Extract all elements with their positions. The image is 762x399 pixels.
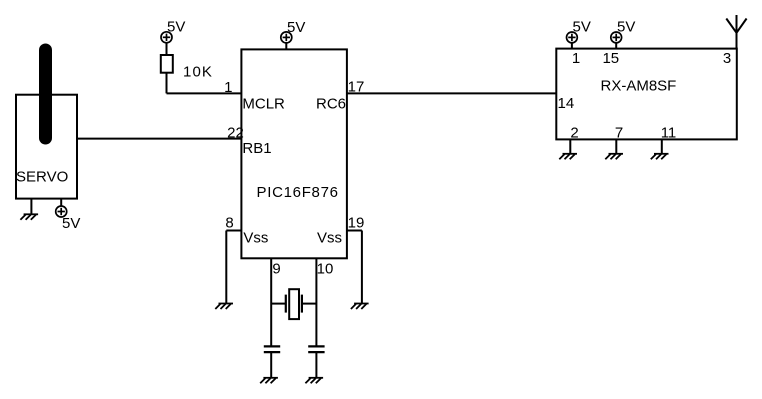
- wire crystal right: [302, 303, 317, 305]
- svg-text:17: 17: [348, 79, 365, 96]
- ground (RX pin 7): [605, 154, 623, 160]
- wire capacitor right to ground: [315, 352, 317, 378]
- wire RX pin 11 to ground: [661, 139, 663, 153]
- ground (servo): [20, 214, 38, 220]
- wire RC6 to RX pin 14: [347, 92, 556, 94]
- capacitor left bottom plate: [264, 351, 280, 353]
- ground (pin 8): [215, 304, 233, 310]
- wire 5V to RX pin 15: [615, 43, 617, 49]
- svg-text:5V: 5V: [617, 19, 635, 36]
- svg-text:Vss: Vss: [317, 229, 342, 246]
- svg-text:7: 7: [615, 124, 623, 141]
- svg-text:5V: 5V: [287, 19, 305, 36]
- 5V supply symbol (RX pin 1): [567, 32, 578, 43]
- wire resistor to MCLR (vertical): [166, 73, 168, 94]
- wire 5V to RX pin 1: [571, 43, 573, 49]
- wire pin 8 horizontal: [226, 230, 241, 232]
- ground (pin 19): [351, 304, 369, 310]
- servo SERVO box: [16, 95, 77, 199]
- wire resistor to MCLR (horizontal): [167, 92, 242, 94]
- svg-text:MCLR: MCLR: [242, 96, 285, 113]
- crystal right plate: [301, 295, 303, 313]
- servo ground lead wire: [30, 199, 32, 215]
- wire 5V to resistor: [166, 43, 168, 55]
- wire capacitor left to ground: [270, 352, 272, 378]
- 5V supply symbol (resistor top): [161, 32, 172, 43]
- 5V supply symbol (RX pin 15): [611, 32, 622, 43]
- svg-text:PIC16F876: PIC16F876: [257, 184, 339, 201]
- svg-text:9: 9: [272, 260, 280, 277]
- resistor 10K: [161, 55, 173, 73]
- IC PIC16F876 box: [241, 49, 347, 258]
- svg-text:11: 11: [661, 124, 677, 141]
- svg-text:5V: 5V: [573, 19, 591, 36]
- ground (capacitor right): [305, 378, 323, 384]
- crystal body: [289, 289, 299, 319]
- svg-text:1: 1: [224, 79, 232, 96]
- servo 5V supply lead wire: [60, 199, 62, 206]
- wire 5V to PIC top: [285, 43, 287, 49]
- svg-text:Vss: Vss: [243, 229, 268, 246]
- wire pin 10 vertical: [315, 258, 317, 346]
- svg-text:15: 15: [602, 50, 619, 67]
- wire pin 19 vertical: [361, 231, 363, 304]
- servo horn: [39, 50, 52, 138]
- svg-text:RX-AM8SF: RX-AM8SF: [601, 77, 677, 94]
- svg-text:14: 14: [558, 95, 575, 112]
- ground (RX pin 11): [651, 154, 669, 160]
- svg-text:3: 3: [723, 50, 731, 67]
- module RX-AM8SF box: [556, 49, 737, 140]
- wire crystal left: [271, 303, 286, 305]
- capacitor left top plate: [264, 345, 280, 347]
- wire RX pin 2 to ground: [569, 139, 571, 153]
- antenna (RX pin 3): [726, 15, 746, 49]
- 5V supply symbol (PIC top): [281, 32, 292, 43]
- svg-text:1: 1: [572, 50, 580, 67]
- svg-text:19: 19: [348, 215, 365, 232]
- wire pin 19 horizontal: [347, 230, 362, 232]
- wire RX pin 7 to ground: [615, 139, 617, 153]
- ground (capacitor left): [260, 378, 278, 384]
- capacitor right bottom plate: [308, 351, 324, 353]
- crystal left plate: [285, 295, 287, 313]
- svg-text:10K: 10K: [183, 63, 213, 80]
- svg-text:RC6: RC6: [316, 96, 346, 113]
- svg-text:SERVO: SERVO: [16, 169, 68, 186]
- svg-text:5V: 5V: [62, 215, 80, 232]
- capacitor right top plate: [308, 345, 324, 347]
- svg-text:8: 8: [225, 215, 233, 232]
- svg-text:RB1: RB1: [242, 140, 271, 157]
- ground (RX pin 2): [559, 154, 577, 160]
- svg-text:10: 10: [317, 260, 334, 277]
- svg-text:5V: 5V: [167, 19, 185, 36]
- wire pin 8 vertical: [225, 231, 227, 304]
- wire pin 9 vertical: [270, 258, 272, 346]
- svg-text:2: 2: [570, 124, 578, 141]
- svg-text:22: 22: [227, 125, 244, 142]
- 5V supply symbol (servo): [56, 206, 67, 217]
- wire servo to RB1: [77, 138, 241, 140]
